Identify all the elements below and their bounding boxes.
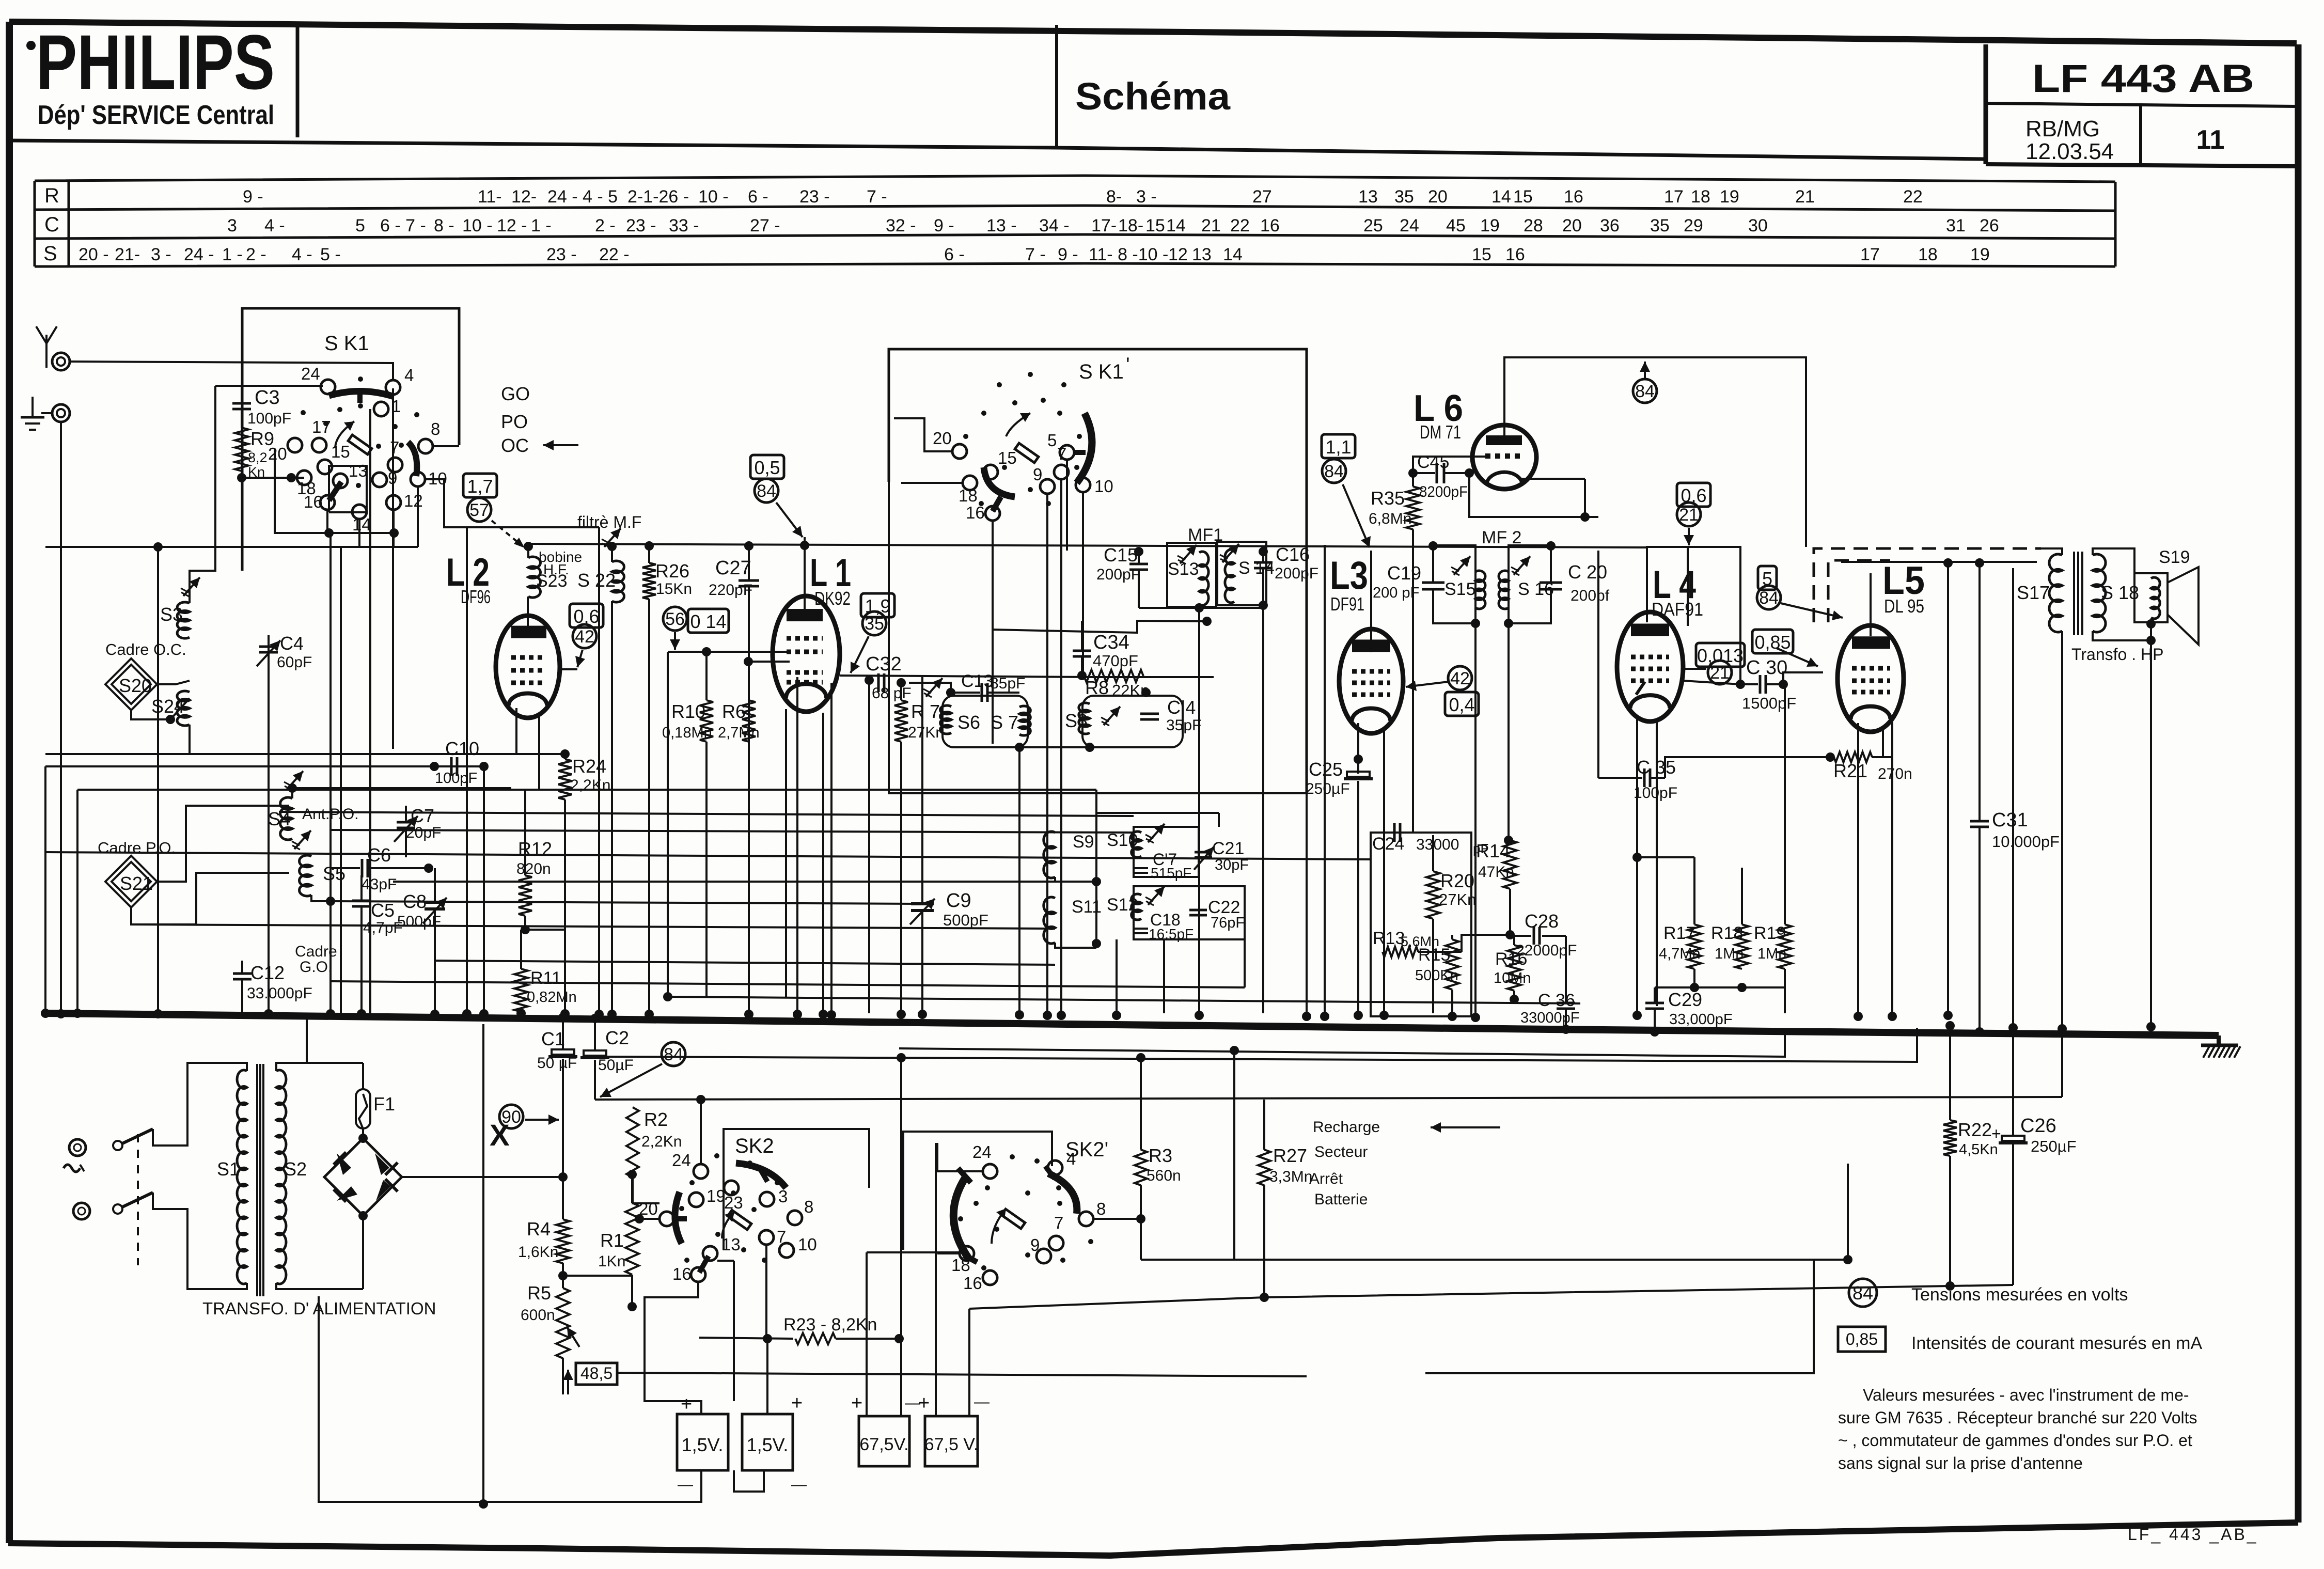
coil S5 bbox=[300, 855, 311, 896]
badge 84 L1 bbox=[755, 479, 778, 503]
svg-text:8-: 8- bbox=[1106, 187, 1122, 207]
wire L1 grid long bbox=[598, 527, 600, 1013]
svg-text:9: 9 bbox=[1033, 465, 1042, 484]
svg-text:24: 24 bbox=[672, 1151, 691, 1170]
SK1 arrow bbox=[335, 421, 354, 448]
svg-text:17: 17 bbox=[1860, 245, 1880, 264]
svg-text:—: — bbox=[791, 1476, 807, 1493]
wires SK1prime to left bbox=[894, 418, 952, 451]
svg-text:100pF: 100pF bbox=[247, 410, 291, 427]
wire battery3 plus bbox=[866, 1252, 868, 1416]
wire upper pole to S1 top bbox=[153, 1063, 241, 1146]
svg-text:C2: C2 bbox=[605, 1027, 629, 1048]
svg-text:1 -: 1 - bbox=[531, 216, 552, 236]
transformer box S16 bbox=[1509, 545, 1551, 623]
SK1 selector blade bbox=[329, 482, 341, 500]
svg-text:12: 12 bbox=[404, 491, 423, 510]
boxes bottom wire bbox=[1019, 746, 1090, 748]
wire R8 box top bbox=[993, 621, 1207, 633]
svg-text:C34: C34 bbox=[1093, 632, 1129, 653]
svg-text:C28: C28 bbox=[1525, 911, 1559, 932]
wire horizontal 1707 bbox=[393, 881, 1055, 883]
svg-text:2 -: 2 - bbox=[246, 245, 266, 264]
resistor R22 bbox=[1943, 1120, 1957, 1156]
wire SK2 16 down bbox=[0, 0, 1, 1]
coil S8 bbox=[1079, 703, 1090, 734]
svg-text:R15: R15 bbox=[1418, 945, 1450, 965]
svg-text:3 -: 3 - bbox=[151, 245, 171, 264]
svg-text:5: 5 bbox=[1047, 431, 1057, 450]
svg-text:C29: C29 bbox=[1668, 989, 1702, 1010]
svg-text:C 36: C 36 bbox=[1538, 991, 1575, 1010]
mains plug upper bbox=[69, 1139, 86, 1156]
svg-text:12 -: 12 - bbox=[497, 216, 527, 236]
arrow 84 to L1 anode wire bbox=[776, 503, 803, 537]
wire SK2prime 8 right bbox=[1093, 1218, 1141, 1220]
wire lower pole to S1 bottom bbox=[153, 1193, 241, 1289]
svg-text:R24: R24 bbox=[572, 756, 606, 777]
variable arrow S3 bbox=[183, 577, 200, 596]
wire S20 to coils bbox=[157, 681, 190, 684]
svg-text:500pF: 500pF bbox=[943, 911, 988, 929]
battery 3 67,5V bbox=[859, 1416, 909, 1466]
SK2 arc left bbox=[675, 1192, 682, 1244]
coil S17 primary bbox=[2049, 554, 2062, 632]
tube L4 DAF91 bbox=[1687, 547, 1689, 626]
svg-text:24: 24 bbox=[972, 1142, 992, 1162]
svg-text:7 -: 7 - bbox=[867, 187, 887, 207]
coil S12 bbox=[1132, 894, 1141, 920]
tube L3 leads bbox=[1357, 723, 1359, 774]
capacitor C6 bbox=[331, 867, 360, 869]
svg-text:56: 56 bbox=[665, 609, 685, 629]
wire grid line to S6 box bbox=[909, 683, 951, 693]
svg-text:7: 7 bbox=[1057, 444, 1066, 463]
svg-text:67,5V.: 67,5V. bbox=[859, 1435, 908, 1454]
svg-text:16: 16 bbox=[672, 1264, 692, 1283]
wire contact7 to battery2 plus bbox=[766, 1339, 768, 1414]
svg-text:3: 3 bbox=[227, 216, 237, 236]
wire horizontal node line bbox=[45, 546, 418, 548]
svg-text:57: 57 bbox=[469, 500, 489, 520]
wire bridge bottom to S2 bbox=[362, 1216, 364, 1289]
wire vertical 2410 bbox=[1244, 939, 1246, 987]
svg-text:9: 9 bbox=[1030, 1235, 1040, 1254]
svg-text:13: 13 bbox=[721, 1235, 741, 1254]
svg-text:R23 - 8,2Kn: R23 - 8,2Kn bbox=[783, 1315, 877, 1335]
speaker wires bbox=[2093, 548, 2134, 573]
wire S3 top bbox=[190, 386, 215, 603]
MF1 bottom wire bbox=[1139, 607, 1263, 609]
svg-text:20: 20 bbox=[268, 444, 287, 463]
svg-text:10 -: 10 - bbox=[462, 216, 493, 236]
svg-text:13: 13 bbox=[1192, 245, 1212, 264]
resistor R35 bbox=[1406, 487, 1420, 529]
svg-text:G.O.: G.O. bbox=[300, 959, 332, 976]
svg-text:0,82Mn: 0,82Mn bbox=[527, 989, 577, 1006]
wire R9 to contact 18 bbox=[242, 477, 304, 479]
grid wire box R10 bbox=[668, 651, 788, 653]
svg-text:R12: R12 bbox=[518, 838, 552, 859]
svg-text:20: 20 bbox=[1562, 216, 1582, 236]
badge 1,1 bbox=[1322, 434, 1355, 458]
wire L6 anode top bbox=[1504, 357, 1806, 547]
svg-text:42: 42 bbox=[1450, 669, 1470, 688]
resistor R3 bbox=[1135, 1150, 1147, 1185]
SK1prime index dots bbox=[1012, 400, 1017, 405]
svg-text:23 -: 23 - bbox=[546, 245, 577, 264]
svg-text:sure GM 7635 . Récepteur: sure GM 7635 . Récepteur branché sur 220… bbox=[1838, 1408, 2197, 1427]
svg-text:23 -: 23 - bbox=[626, 216, 656, 236]
svg-text:15Kn: 15Kn bbox=[656, 580, 692, 598]
svg-text:C 35: C 35 bbox=[1637, 757, 1676, 778]
svg-text:S17: S17 bbox=[2017, 582, 2050, 603]
coil S10 bbox=[1132, 831, 1141, 857]
svg-text:PHILIPS: PHILIPS bbox=[36, 19, 275, 105]
svg-text:14: 14 bbox=[1166, 216, 1186, 236]
tube L4 leads bbox=[1636, 718, 1638, 1013]
variable arrow S5 bbox=[294, 830, 311, 849]
svg-text:C5: C5 bbox=[371, 900, 395, 921]
box L4 top bbox=[1647, 547, 1740, 684]
svg-text:4 -: 4 - bbox=[292, 245, 312, 264]
svg-text:270n: 270n bbox=[1878, 765, 1912, 782]
svg-text:C32: C32 bbox=[866, 653, 902, 675]
svg-text:~ , commutateur de gammes: ~ , commutateur de gammes d'ondes sur P.… bbox=[1838, 1431, 2192, 1450]
wire vertical 2254 bbox=[1163, 939, 1165, 1013]
antenna symbol bbox=[45, 335, 48, 368]
wire horizontal 2439 bbox=[1141, 1259, 1848, 1261]
arrow 84 to L3 anode bbox=[1343, 484, 1370, 547]
svg-text:47Kn: 47Kn bbox=[1478, 864, 1514, 881]
svg-text:84: 84 bbox=[664, 1045, 683, 1064]
wire battery3 minus bbox=[900, 1058, 902, 1416]
SK1 rotor slot bbox=[348, 435, 372, 454]
svg-text:R4: R4 bbox=[527, 1218, 551, 1239]
svg-text:R20: R20 bbox=[1440, 870, 1474, 891]
badge 48,5 bbox=[576, 1363, 617, 1385]
capacitor C3 bbox=[241, 386, 243, 403]
svg-text:84: 84 bbox=[1852, 1282, 1873, 1304]
frame antenna S20 diamond bbox=[105, 658, 157, 710]
fuse F1 bbox=[362, 1063, 364, 1089]
badge 0,013 bbox=[1696, 643, 1745, 667]
svg-text:36: 36 bbox=[1600, 216, 1620, 236]
svg-text:S K1: S K1 bbox=[324, 332, 369, 355]
svg-text:15: 15 bbox=[1145, 216, 1165, 236]
variable arrow S8 bbox=[1104, 707, 1120, 725]
wire R5 wiper bbox=[567, 1327, 579, 1347]
capacitor C34 bbox=[1081, 621, 1083, 651]
svg-text:24 -: 24 - bbox=[184, 245, 214, 264]
svg-text:24: 24 bbox=[1400, 216, 1419, 236]
svg-text:+: + bbox=[1991, 1124, 2001, 1143]
svg-text:R27: R27 bbox=[1273, 1145, 1307, 1166]
svg-text:R16: R16 bbox=[1495, 949, 1527, 969]
wire SK2prime 24 branch bbox=[937, 1143, 983, 1171]
wire vertical pair mid bbox=[1046, 793, 1048, 1013]
arrow 42 to L3 grid bbox=[1406, 682, 1448, 687]
rotary SK2 contacts bbox=[694, 1164, 708, 1179]
svg-text:GO: GO bbox=[501, 383, 530, 404]
svg-text:10 -: 10 - bbox=[698, 187, 729, 207]
wire contact10 to right bbox=[425, 479, 599, 527]
SK1 index dots bbox=[301, 410, 306, 415]
wire C30 to L5 grid bbox=[1783, 672, 1823, 684]
variable capacitor C4 bbox=[268, 635, 270, 1013]
tube L5 leads bbox=[1857, 723, 1859, 1013]
switch blade upper bbox=[122, 1129, 153, 1143]
wire R22 C26 bottom bbox=[1949, 1156, 1951, 1285]
node R9 bottom bbox=[241, 471, 243, 478]
svg-text:32 -: 32 - bbox=[886, 216, 916, 236]
badge 84 below bus bbox=[662, 1042, 685, 1066]
tube L6 DM71 bbox=[1472, 425, 1536, 489]
svg-text:15: 15 bbox=[1472, 245, 1491, 264]
coil S22 bbox=[604, 528, 621, 547]
svg-text:S: S bbox=[43, 242, 57, 265]
wire battery1 plus riser bbox=[733, 1261, 735, 1401]
switch link dashed bbox=[137, 1134, 139, 1265]
svg-text:16: 16 bbox=[304, 492, 323, 511]
wires SK1prime down bbox=[992, 521, 994, 744]
svg-text:Transfo . HP: Transfo . HP bbox=[2071, 645, 2163, 664]
svg-text:4: 4 bbox=[1066, 1149, 1076, 1168]
arrow 42 to L2 grid bbox=[577, 650, 583, 667]
svg-text:43pF: 43pF bbox=[362, 876, 397, 893]
svg-text:33000: 33000 bbox=[1416, 836, 1459, 853]
svg-text:16:5pF: 16:5pF bbox=[1149, 926, 1194, 942]
arrow OC bbox=[543, 444, 578, 446]
svg-text:2 -: 2 - bbox=[595, 216, 616, 236]
tube L1 leads bbox=[785, 709, 787, 997]
badge 0 14 bbox=[688, 609, 729, 633]
oscillator coil S11 bbox=[1044, 897, 1055, 944]
bridge rectifier X bbox=[324, 1138, 402, 1216]
svg-text:Cadre P.O.: Cadre P.O. bbox=[98, 839, 176, 857]
capacitor C30 bbox=[1683, 681, 1740, 684]
resistor R4 bbox=[562, 1177, 564, 1219]
header divider vertical left bbox=[296, 26, 300, 137]
wire horizontal 1835 bbox=[435, 961, 1055, 965]
capacitor C31 bbox=[1978, 562, 1981, 821]
tube L2 leads bbox=[515, 708, 517, 754]
arrow 35 to C32 line bbox=[851, 636, 869, 673]
badge 1,7 bbox=[463, 474, 497, 497]
svg-text:84: 84 bbox=[1759, 588, 1779, 608]
svg-text:R17: R17 bbox=[1663, 923, 1695, 943]
tube L3 DF91 bbox=[1370, 551, 1372, 652]
wire to SK2 contact24 bbox=[700, 1100, 702, 1164]
svg-text:27Kn: 27Kn bbox=[1439, 890, 1476, 908]
svg-text:DF96: DF96 bbox=[461, 586, 491, 607]
badge 0,4 L3 bbox=[1445, 692, 1479, 716]
badge 35 bbox=[862, 611, 886, 635]
svg-text:S1: S1 bbox=[217, 1158, 240, 1180]
wire vertical 3772 bbox=[1947, 562, 1949, 1013]
arrow 84 anode line up bbox=[1644, 362, 1646, 378]
svg-text:0,4: 0,4 bbox=[1449, 694, 1474, 715]
svg-text:S6: S6 bbox=[957, 712, 980, 733]
svg-text:17: 17 bbox=[312, 417, 331, 436]
svg-text:RB/MG: RB/MG bbox=[2025, 116, 2100, 142]
coil S4 bbox=[280, 797, 292, 840]
wire vertical 2530 bbox=[1306, 793, 1308, 1013]
rotary SK1prime contacts bbox=[952, 444, 967, 459]
wire S4 top bbox=[292, 788, 511, 798]
SK2 arc top bbox=[736, 1163, 786, 1188]
svg-text:24 - 4 - 5: 24 - 4 - 5 bbox=[547, 187, 618, 207]
SK1 selector arc right bbox=[408, 442, 417, 476]
svg-text:15: 15 bbox=[1513, 187, 1533, 207]
wire horizontal 1900 bbox=[331, 981, 1245, 987]
SK2prime arc right bbox=[1048, 1173, 1077, 1214]
svg-text:14: 14 bbox=[1491, 187, 1511, 207]
wire R14 top node bbox=[1509, 839, 1510, 841]
SK1prime arrow bbox=[1006, 413, 1030, 436]
svg-text:S19: S19 bbox=[2159, 547, 2190, 567]
coil S18 secondary bbox=[2093, 554, 2106, 632]
badge 42 L2 bbox=[573, 624, 596, 648]
svg-text:21-: 21- bbox=[115, 245, 140, 264]
transformer box S14 bbox=[1217, 542, 1266, 605]
svg-text:LF 443 AB: LF 443 AB bbox=[2032, 57, 2254, 101]
svg-text:25: 25 bbox=[1363, 216, 1383, 236]
svg-text:1,5V.: 1,5V. bbox=[682, 1434, 724, 1455]
box S12 C18 C22 bbox=[1134, 886, 1245, 939]
svg-text:2,2Kn: 2,2Kn bbox=[641, 1133, 682, 1150]
svg-text:470pF: 470pF bbox=[1093, 652, 1138, 670]
svg-text:SK2: SK2 bbox=[735, 1135, 774, 1157]
header divider vertical mid bbox=[1055, 25, 1058, 149]
svg-text:S20: S20 bbox=[119, 675, 152, 696]
badge 5 bbox=[1758, 566, 1777, 590]
switch blade lower bbox=[122, 1193, 153, 1207]
svg-text:L3: L3 bbox=[1330, 554, 1368, 598]
wire S17 down to bus bbox=[2061, 631, 2063, 1029]
tube L2 DF96 bbox=[527, 597, 529, 638]
svg-text:23: 23 bbox=[724, 1193, 743, 1212]
transformer box S13 bbox=[1167, 543, 1216, 607]
svg-text:Tensions mesurées en vol: Tensions mesurées en volts bbox=[1911, 1285, 2128, 1305]
header bottom line bbox=[8, 140, 1986, 159]
wire L6 cathode loop bbox=[1518, 478, 1585, 480]
long wire to right edge bbox=[1306, 1376, 1307, 1389]
svg-text:14: 14 bbox=[352, 515, 371, 534]
svg-text:29: 29 bbox=[1684, 216, 1703, 236]
battery 1 1,5V bbox=[677, 1414, 728, 1470]
wire R17 top node bbox=[1637, 856, 1694, 858]
svg-text:45: 45 bbox=[1446, 216, 1466, 236]
svg-text:C15: C15 bbox=[1104, 544, 1138, 566]
svg-text:17: 17 bbox=[1664, 187, 1684, 207]
svg-text:27 -: 27 - bbox=[750, 216, 780, 236]
svg-text:1,5V.: 1,5V. bbox=[747, 1434, 789, 1455]
wire horizontal 1745 bbox=[331, 901, 922, 904]
svg-text:C12: C12 bbox=[250, 962, 285, 983]
svg-text:7 -: 7 - bbox=[1025, 245, 1046, 264]
svg-text:R 7: R 7 bbox=[911, 701, 940, 722]
wire R4 R1 junction bbox=[563, 1275, 632, 1277]
coil S23 bobine HF bbox=[528, 557, 540, 598]
svg-text:10.000pF: 10.000pF bbox=[1992, 833, 2060, 851]
svg-text:19: 19 bbox=[706, 1186, 726, 1205]
svg-text:DF91: DF91 bbox=[1330, 593, 1364, 615]
svg-text:C9: C9 bbox=[946, 890, 971, 912]
transformer secondary S2 bbox=[276, 1070, 286, 1284]
capacitor C5 bbox=[360, 875, 363, 901]
svg-text:20: 20 bbox=[1428, 187, 1448, 207]
svg-text:48,5: 48,5 bbox=[580, 1364, 613, 1383]
grid line through R8 area bbox=[1096, 676, 1214, 678]
svg-text:Arrêt: Arrêt bbox=[1309, 1170, 1343, 1187]
wire 48,5 run bbox=[617, 1373, 1307, 1376]
svg-text:S12: S12 bbox=[1107, 895, 1138, 915]
svg-text:S24: S24 bbox=[151, 696, 184, 717]
wire vertical 3898 bbox=[2012, 568, 2014, 1028]
svg-text:R2: R2 bbox=[644, 1109, 668, 1130]
arrow 84 to L5 bbox=[1781, 603, 1843, 618]
svg-text:S2: S2 bbox=[284, 1158, 307, 1180]
capacitor C13 bbox=[946, 688, 955, 697]
svg-text:F1: F1 bbox=[373, 1093, 395, 1115]
switch box SK2prime bbox=[903, 1132, 1052, 1268]
svg-text:67,5 V.: 67,5 V. bbox=[924, 1435, 979, 1454]
svg-text:8: 8 bbox=[1096, 1199, 1106, 1218]
svg-text:1,1: 1,1 bbox=[1325, 436, 1351, 458]
wire battery4 minus bbox=[968, 1309, 970, 1416]
resistor R26 bbox=[642, 563, 656, 599]
svg-text:220pF: 220pF bbox=[709, 582, 752, 599]
dashed coupling box bbox=[1814, 548, 2041, 622]
SK2prime rotor slot bbox=[1001, 1209, 1025, 1229]
badge 21 grid bbox=[1708, 661, 1732, 684]
svg-text:0,18Mn: 0,18Mn bbox=[662, 725, 712, 741]
svg-text:S23: S23 bbox=[536, 571, 568, 591]
svg-text:R5: R5 bbox=[527, 1282, 551, 1304]
svg-text:DM 71: DM 71 bbox=[1420, 421, 1461, 443]
variable arrow S4 bbox=[287, 771, 303, 790]
svg-text:C27: C27 bbox=[715, 557, 751, 579]
svg-text:34 -: 34 - bbox=[1039, 216, 1070, 236]
svg-text:19: 19 bbox=[1970, 245, 1990, 264]
svg-text:S5: S5 bbox=[323, 863, 346, 884]
wire run below SK1prime bbox=[889, 482, 1307, 793]
svg-text:4,5Kn: 4,5Kn bbox=[1959, 1141, 1998, 1158]
svg-text:Dép' SERVICE Central: Dép' SERVICE Central bbox=[38, 100, 274, 130]
capacitor C22 bbox=[1189, 909, 1207, 912]
svg-text:5 -: 5 - bbox=[320, 245, 341, 264]
badge 57 bbox=[467, 498, 491, 522]
AC symbol bbox=[64, 1165, 80, 1172]
wire horizontal 1572 bbox=[279, 812, 1134, 816]
svg-text:9 -: 9 - bbox=[243, 187, 263, 207]
coil S6 bbox=[940, 705, 951, 734]
arrow into R5 tap bbox=[567, 1370, 569, 1394]
svg-text:16: 16 bbox=[963, 1274, 982, 1293]
svg-text:13: 13 bbox=[349, 461, 368, 480]
svg-text:35pF: 35pF bbox=[1166, 717, 1201, 734]
wire vertical 1610 bbox=[830, 683, 833, 1013]
wire antenna to SK1 contact 4 bbox=[70, 362, 393, 380]
transformer primary S1 bbox=[241, 1063, 247, 1071]
svg-text:R3: R3 bbox=[1149, 1145, 1172, 1166]
svg-text:+: + bbox=[681, 1393, 692, 1415]
capacitor C12 bbox=[241, 961, 243, 974]
title block LF 443 AB bbox=[1984, 44, 1988, 164]
variable capacitor C9 bbox=[921, 677, 923, 902]
resistor R15 bbox=[1446, 939, 1459, 990]
